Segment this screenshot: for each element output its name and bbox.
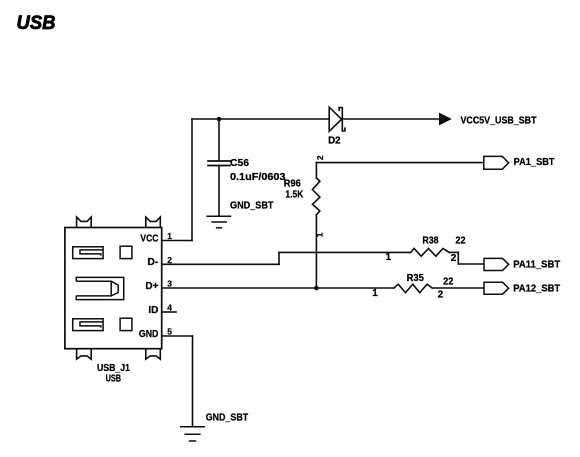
svg-text:GND_SBT: GND_SBT	[230, 200, 274, 211]
wire D- step up	[278, 252, 280, 264]
svg-text:R38: R38	[422, 236, 439, 247]
wire top rail to diode anode	[192, 118, 329, 120]
connector mounting tab top-right	[146, 217, 161, 228]
power arrow VCC5V	[439, 113, 452, 126]
svg-text:VCC: VCC	[140, 233, 158, 244]
resistor R38 zigzag	[411, 248, 449, 256]
connector glyph square lower	[120, 318, 132, 330]
wire diode cathode to power arrow	[342, 118, 439, 120]
svg-text:3: 3	[167, 279, 172, 289]
svg-text:ID: ID	[148, 305, 158, 316]
svg-text:1: 1	[315, 232, 325, 237]
connector glyph contact upper	[73, 247, 103, 259]
diode D2 schottky cathode bar	[339, 108, 345, 132]
wire to port PA11	[458, 263, 484, 265]
svg-text:22: 22	[455, 236, 465, 247]
ground GND_SBT (bottom)	[181, 427, 205, 441]
svg-text:D+: D+	[145, 281, 158, 292]
svg-text:GND_SBT: GND_SBT	[206, 413, 249, 424]
svg-text:USB: USB	[17, 12, 56, 34]
svg-text:1.5K: 1.5K	[285, 189, 304, 200]
connector mounting tab top-left	[77, 217, 92, 228]
wire R35 to port PA12	[432, 287, 484, 289]
svg-text:GND: GND	[139, 329, 159, 340]
wire R38 out segment	[449, 251, 458, 253]
capacitor C56 plates	[208, 161, 230, 166]
svg-text:2: 2	[167, 255, 172, 265]
junction dot capacitor/top rail	[217, 117, 222, 122]
svg-text:1: 1	[372, 288, 378, 299]
wire vertical riser x=192	[191, 119, 193, 241]
wire GND pin5 vertical drop	[192, 336, 194, 426]
svg-text:USB: USB	[106, 373, 122, 384]
svg-text:PA12_SBT: PA12_SBT	[513, 284, 560, 295]
svg-text:PA1_SBT: PA1_SBT	[514, 157, 555, 168]
wire D- pin2 segment	[162, 263, 279, 265]
svg-text:2: 2	[438, 289, 444, 300]
wire capacitor bottom to ground	[218, 166, 220, 216]
junction dot R96/D+	[314, 286, 319, 291]
svg-text:R96: R96	[284, 178, 301, 189]
connector mounting tab bottom-left	[77, 349, 92, 360]
svg-text:D2: D2	[328, 136, 341, 147]
svg-text:1: 1	[386, 252, 392, 263]
connector glyph mini plug	[76, 277, 124, 299]
port PA12_SBT	[484, 282, 509, 294]
wire capacitor top branch	[218, 119, 220, 161]
resistor R96 zigzag	[312, 178, 320, 215]
svg-text:R35: R35	[407, 273, 425, 284]
connector USB_J1 body	[65, 228, 162, 349]
svg-text:VCC5V_USB_SBT: VCC5V_USB_SBT	[461, 115, 537, 126]
port PA1_SBT	[484, 156, 509, 169]
pin 4 stub	[162, 311, 176, 313]
connector mounting tab bottom-right	[146, 349, 161, 360]
connector glyph contact lower	[73, 319, 103, 331]
wire R38 step down	[457, 252, 459, 264]
svg-text:D-: D-	[147, 257, 158, 268]
connector glyph square upper	[120, 246, 132, 258]
port PA11_SBT	[484, 258, 509, 270]
svg-text:PA11_SBT: PA11_SBT	[513, 259, 560, 270]
wire D+ pin3 to R35	[162, 287, 394, 289]
diode D2 triangle	[329, 107, 341, 131]
svg-text:1: 1	[167, 231, 172, 241]
svg-text:4: 4	[167, 303, 172, 313]
wire VCC pin1 to vertical riser	[162, 240, 192, 242]
svg-text:2: 2	[315, 155, 325, 160]
svg-text:0.1uF/0603: 0.1uF/0603	[230, 172, 286, 183]
wire PA1 line from R96 top	[316, 162, 483, 164]
svg-text:5: 5	[167, 327, 172, 337]
resistor R96 top lead	[315, 163, 317, 179]
svg-text:C56: C56	[230, 158, 249, 169]
svg-text:22: 22	[443, 277, 454, 288]
resistor R96 bottom lead	[315, 215, 317, 288]
wire GND pin5 horizontal	[162, 335, 193, 337]
ground GND_SBT (capacitor)	[207, 216, 230, 228]
resistor R35 zigzag	[394, 284, 432, 292]
svg-text:2: 2	[451, 253, 457, 264]
wire D- upper segment to R38	[279, 251, 411, 253]
